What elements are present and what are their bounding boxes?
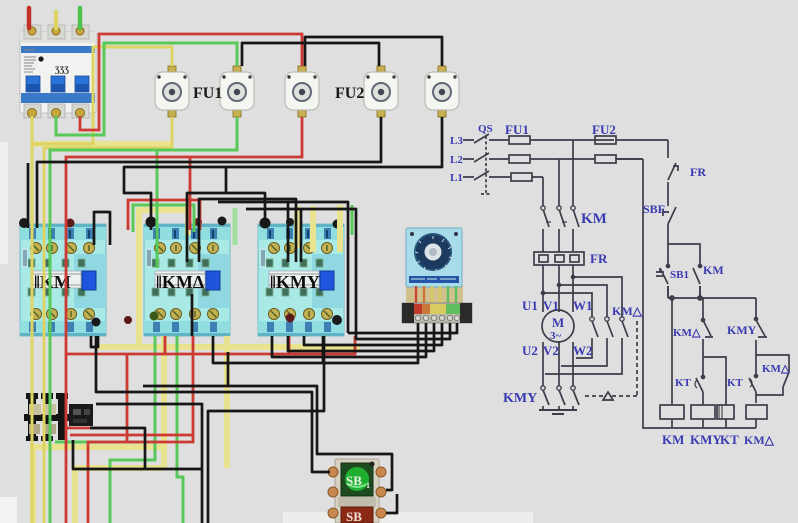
svg-text:KM: KM <box>703 263 724 277</box>
svg-text:KMY: KMY <box>690 432 722 447</box>
svg-text:L3: L3 <box>450 135 463 147</box>
svg-text:ƷƷƷ: ƷƷƷ <box>55 65 69 74</box>
svg-text:KM△: KM△ <box>744 433 775 447</box>
svg-text:‖KMΔ: ‖KMΔ <box>156 272 204 292</box>
svg-text:FR: FR <box>690 165 706 179</box>
svg-text:KM△: KM△ <box>673 327 701 339</box>
svg-text:SBE: SBE <box>643 202 666 216</box>
svg-text:‖KMY: ‖KMY <box>270 272 320 292</box>
svg-text:W1: W1 <box>573 298 593 313</box>
svg-text:FU2: FU2 <box>335 85 364 102</box>
svg-text:SB: SB <box>346 509 362 523</box>
svg-text:KT: KT <box>675 377 692 389</box>
svg-text:U1: U1 <box>522 298 538 313</box>
svg-text:1: 1 <box>366 481 370 490</box>
svg-text:3~: 3~ <box>550 330 562 342</box>
svg-text:SB: SB <box>346 473 362 488</box>
svg-text:SB1: SB1 <box>670 269 689 281</box>
svg-text:KT: KT <box>727 377 744 389</box>
svg-text:W2: W2 <box>573 343 593 358</box>
svg-text:FU1: FU1 <box>193 85 222 102</box>
svg-text:V2: V2 <box>543 343 559 358</box>
svg-text:L2: L2 <box>450 154 463 166</box>
svg-text:KMY: KMY <box>727 323 757 337</box>
svg-text:U2: U2 <box>522 343 538 358</box>
svg-text:FU2: FU2 <box>592 122 616 137</box>
svg-text:V1: V1 <box>543 298 559 313</box>
svg-text:FR: FR <box>590 251 608 266</box>
svg-text:KM: KM <box>581 211 607 227</box>
svg-text:KM△: KM△ <box>612 304 643 318</box>
svg-text:M: M <box>552 315 564 330</box>
svg-text:KM: KM <box>662 432 684 447</box>
svg-text:KT: KT <box>720 432 739 447</box>
svg-text:KMY: KMY <box>503 391 537 406</box>
svg-text:QS: QS <box>478 123 493 135</box>
svg-text:FU1: FU1 <box>505 122 529 137</box>
svg-text:L1: L1 <box>450 172 463 184</box>
svg-text:KM△: KM△ <box>762 363 790 375</box>
